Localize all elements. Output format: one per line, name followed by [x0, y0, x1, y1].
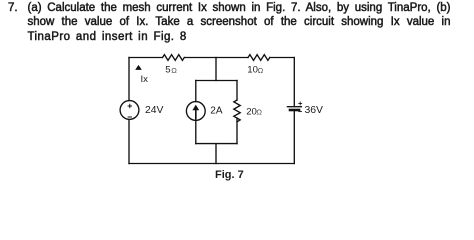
wire right branch lower	[293, 111, 295, 164]
svg-text:2A: 2A	[210, 106, 223, 117]
svg-text:Ω: Ω	[258, 66, 264, 75]
voltage source V1 value 24V	[145, 105, 164, 116]
figure caption Fig. 7	[215, 169, 244, 181]
wire inner-right lower	[236, 118, 238, 144]
wire top-middle segment	[184, 57, 248, 59]
svg-text:Ω: Ω	[171, 66, 177, 75]
resistor 20ohm value label	[246, 106, 262, 117]
wire bottom connector	[215, 144, 217, 164]
wire bottom	[129, 163, 294, 165]
battery 36V short thick plate	[290, 109, 299, 112]
wire top-left segment	[129, 57, 163, 59]
voltage source V1 minus sign	[128, 116, 131, 118]
problem text line 1	[28, 1, 451, 16]
resistor 10ohm value label	[247, 65, 263, 76]
Ix label	[141, 74, 149, 85]
svg-text:Fig. 7: Fig. 7	[215, 169, 244, 181]
resistor 5ohm value label	[165, 64, 177, 75]
inner loop top wire	[196, 80, 237, 82]
svg-text:24V: 24V	[145, 105, 164, 116]
battery 36V value label	[305, 105, 324, 116]
svg-text:20: 20	[246, 106, 257, 117]
current source I1 arrow	[195, 109, 197, 119]
Ix mesh-current arrow	[135, 65, 142, 70]
battery 36V long plate	[287, 106, 301, 108]
svg-text:Ix: Ix	[141, 74, 149, 85]
wire top connector (node to inner loop)	[215, 58, 217, 81]
current source I1 circle	[186, 102, 205, 121]
wire inner-right upper	[236, 81, 238, 101]
inner loop bottom wire	[196, 143, 237, 145]
problem text line 3	[28, 30, 451, 45]
svg-text:10: 10	[247, 65, 258, 76]
wire top-right segment	[270, 57, 295, 59]
resistor 5ohm zigzag	[163, 55, 185, 61]
svg-text:5: 5	[165, 64, 170, 75]
current source I1 value 2A	[210, 106, 223, 117]
resistor 10ohm zigzag	[248, 55, 270, 61]
wire inner-left lower	[195, 120, 197, 143]
wire left branch upper	[128, 58, 130, 101]
resistor 20ohm zigzag	[234, 100, 240, 122]
svg-text:Ω: Ω	[256, 108, 262, 117]
svg-text:36V: 36V	[305, 105, 324, 116]
voltage source V1 circle	[120, 101, 139, 120]
problem text line 2	[28, 15, 451, 30]
wire left branch lower	[128, 119, 130, 163]
wire right branch upper	[293, 58, 295, 107]
battery 36V plus mark	[299, 102, 302, 105]
battery 36V minus mark	[299, 111, 302, 113]
problem text line marker	[8, 1, 18, 16]
wire inner-left upper	[195, 81, 197, 102]
voltage source V1 plus sign	[128, 104, 131, 107]
